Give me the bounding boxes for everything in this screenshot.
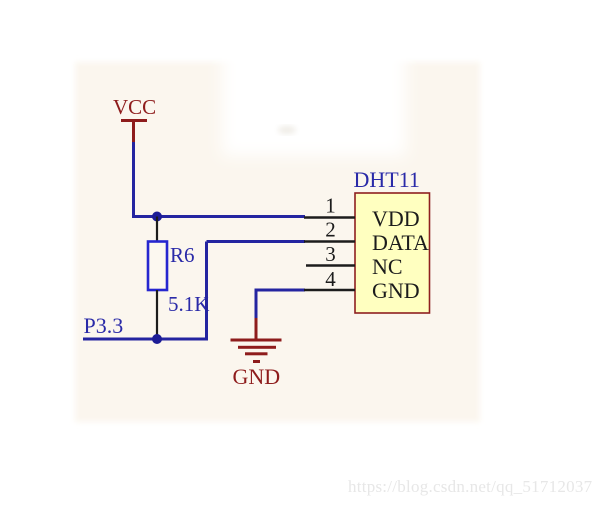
wire GND vertical drop — [255, 289, 258, 319]
svg-text:P3.3: P3.3 — [84, 313, 124, 338]
power symbol VCC crossbar — [121, 119, 147, 122]
svg-text:https://blog.csdn.net/qq_51712: https://blog.csdn.net/qq_51712037 — [348, 477, 593, 496]
svg-text:GND: GND — [233, 364, 281, 389]
pin 4 stub — [304, 289, 355, 291]
pin 2 stub — [304, 240, 355, 242]
svg-text:5.1K: 5.1K — [168, 292, 209, 316]
wire VCC rail to pin 1 — [132, 215, 305, 218]
svg-text:3: 3 — [325, 242, 336, 266]
paper background tint — [75, 62, 480, 422]
svg-text:1: 1 — [325, 194, 336, 218]
svg-text:4: 4 — [325, 267, 336, 291]
svg-text:DHT11: DHT11 — [354, 167, 420, 192]
ground bar 2 — [238, 346, 276, 349]
svg-text:VDD: VDD — [372, 206, 420, 231]
light blotch top middle — [222, 40, 406, 156]
faint smudge — [278, 126, 296, 134]
resistor R6 body — [148, 242, 167, 291]
wire DATA vertical riser — [205, 242, 208, 340]
svg-text:VCC: VCC — [113, 95, 156, 119]
ground bar 1 — [231, 339, 282, 342]
svg-text:NC: NC — [372, 254, 403, 279]
wire DATA horizontal to pin 2 — [207, 240, 306, 243]
power symbol VCC stub — [132, 120, 135, 142]
wire P3.3 horizontal — [83, 338, 208, 341]
ground bar 4 — [253, 360, 260, 363]
svg-text:2: 2 — [325, 218, 336, 242]
wire GND horizontal to pin 4 — [256, 289, 305, 292]
pin 1 stub — [304, 216, 355, 218]
component U1 DHT11 body — [355, 193, 430, 313]
junction node at R6 top — [152, 212, 162, 222]
ground lead red segment — [255, 318, 258, 339]
junction node at R6 bottom — [152, 334, 162, 344]
pin 3 stub NC — [306, 264, 355, 266]
ground bar 3 — [245, 352, 268, 355]
wire VCC vertical — [132, 142, 135, 217]
svg-text:DATA: DATA — [372, 230, 429, 255]
resistor R6 bottom lead — [156, 290, 158, 339]
resistor R6 top lead — [156, 217, 158, 243]
svg-text:R6: R6 — [170, 243, 195, 267]
svg-text:GND: GND — [372, 278, 420, 303]
